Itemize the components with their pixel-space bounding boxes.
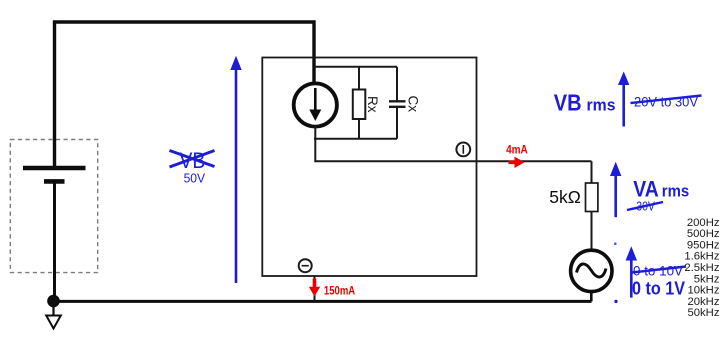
blue arrow 0 to 1V <box>626 246 637 297</box>
ground <box>46 301 61 329</box>
wire top rail of RC network <box>314 66 397 68</box>
label VB 50V (struck) <box>170 148 215 186</box>
svg-text:500Hz: 500Hz <box>687 228 720 240</box>
label VA rms <box>633 177 689 202</box>
svg-text:VB: VB <box>554 90 582 116</box>
svg-text:10kHz: 10kHz <box>687 285 719 297</box>
AC source VS <box>571 250 612 291</box>
stray blue dot near bottom wire <box>614 300 617 303</box>
svg-text:Rx: Rx <box>365 96 380 113</box>
wire DUT bottom to ground rail <box>314 276 316 301</box>
svg-text:5kHz: 5kHz <box>694 273 720 285</box>
capacitor Cx <box>389 67 421 139</box>
wire current source bottom stub <box>314 126 316 139</box>
wire resistor to AC source <box>591 211 593 250</box>
DUT box <box>262 58 476 277</box>
wire bottom rail <box>54 300 592 303</box>
wire bottom rail of RC network <box>314 138 397 140</box>
svg-text:20kHz: 20kHz <box>687 296 719 308</box>
svg-text:0 to 1V: 0 to 1V <box>632 279 685 299</box>
label 0 to 10V (struck) <box>632 264 687 279</box>
battery V1 <box>23 168 86 301</box>
svg-text:50kHz: 50kHz <box>687 307 719 319</box>
wire from RC bottom to output terminal <box>315 139 591 162</box>
resistor Rx <box>353 67 380 139</box>
label VB rms <box>554 90 616 116</box>
svg-text:1.6kHz: 1.6kHz <box>684 251 720 263</box>
svg-text:4mA: 4mA <box>506 145 528 157</box>
dashed box around battery <box>10 140 97 273</box>
svg-text:rms: rms <box>587 96 616 115</box>
svg-text:50V: 50V <box>184 171 206 186</box>
terminal 1 (circle with 1) <box>456 143 470 157</box>
wire AC source bottom stub <box>590 291 593 301</box>
svg-text:Cx: Cx <box>406 96 421 113</box>
wire terminal to 5k resistor <box>591 161 593 183</box>
blue long arrow VB (left) <box>230 56 241 283</box>
label 30V (struck) <box>627 199 663 214</box>
red arrow 150mA <box>309 279 355 298</box>
label 20V to 30V (struck) <box>631 94 702 110</box>
frequency list <box>684 217 720 319</box>
resistor R1 5kOhm <box>549 183 598 212</box>
red arrow 4mA <box>506 145 528 169</box>
svg-text:950Hz: 950Hz <box>687 239 720 251</box>
stray blue dot near VA arrow <box>614 242 617 245</box>
svg-text:200Hz: 200Hz <box>687 217 720 229</box>
svg-text:rms: rms <box>662 182 689 201</box>
wire top thick from battery to DUT <box>55 22 315 168</box>
terminal minus (circle with minus) <box>299 259 312 272</box>
current source I1 <box>294 83 337 126</box>
svg-text:5kΩ: 5kΩ <box>549 187 581 207</box>
svg-text:150mA: 150mA <box>324 286 355 298</box>
svg-text:2.5kHz: 2.5kHz <box>684 262 720 274</box>
blue arrow VA rms <box>610 162 621 217</box>
blue arrow VB rms <box>618 72 629 127</box>
node junction at battery bottom <box>47 295 60 308</box>
